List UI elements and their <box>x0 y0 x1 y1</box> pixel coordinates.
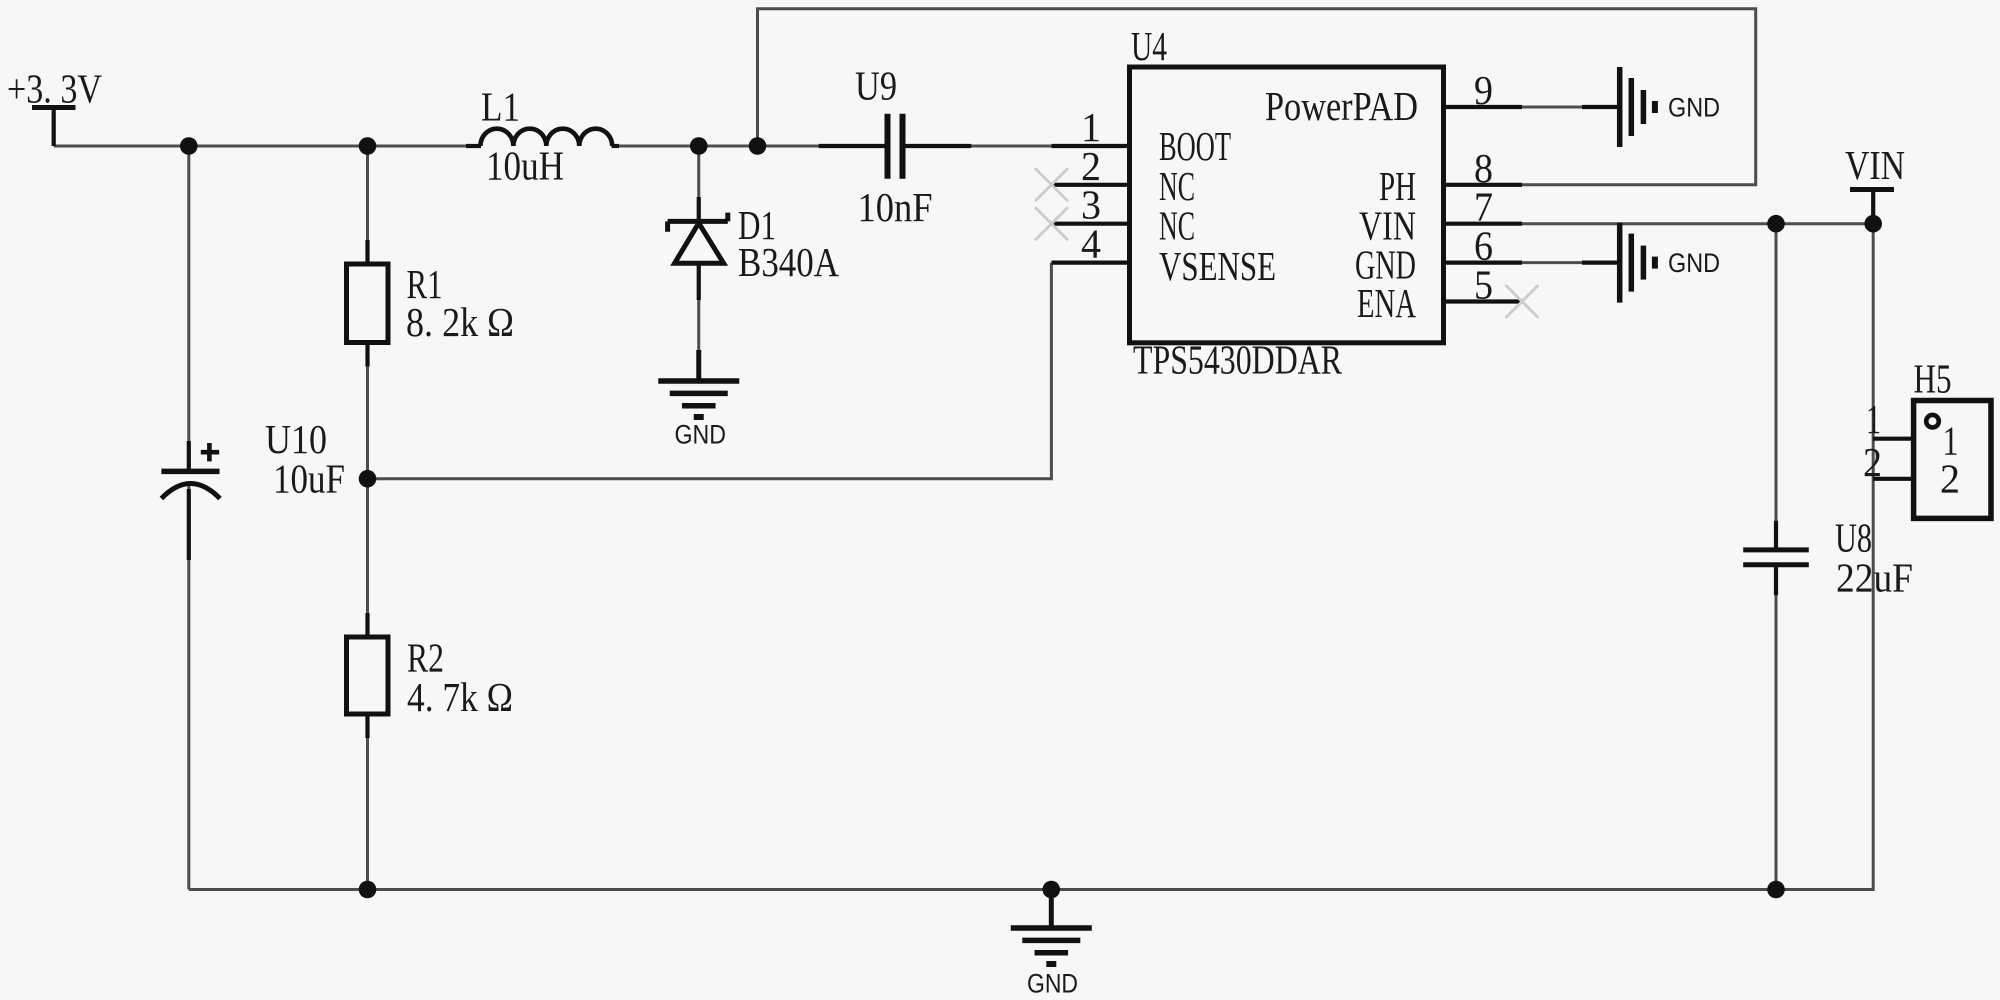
svg-text:VSENSE: VSENSE <box>1159 243 1276 289</box>
svg-text:2: 2 <box>1940 456 1960 502</box>
svg-text:2: 2 <box>1863 439 1882 485</box>
svg-text:+3. 3V: +3. 3V <box>7 66 102 112</box>
svg-text:4: 4 <box>1081 221 1101 267</box>
svg-text:ENA: ENA <box>1357 280 1416 326</box>
svg-text:VIN: VIN <box>1845 142 1905 188</box>
svg-text:4. 7k Ω: 4. 7k Ω <box>407 674 513 720</box>
svg-text:GND: GND <box>1027 969 1078 999</box>
svg-text:B340A: B340A <box>738 239 839 285</box>
svg-text:NC: NC <box>1159 203 1195 249</box>
svg-text:5: 5 <box>1474 262 1493 308</box>
svg-text:L1: L1 <box>481 84 520 130</box>
svg-text:U9: U9 <box>855 63 897 109</box>
svg-text:10nF: 10nF <box>858 184 933 230</box>
svg-text:U4: U4 <box>1131 23 1167 69</box>
svg-text:PowerPAD: PowerPAD <box>1265 83 1418 129</box>
svg-text:9: 9 <box>1474 67 1493 113</box>
svg-text:10uH: 10uH <box>486 143 564 189</box>
svg-text:GND: GND <box>1668 93 1720 123</box>
svg-text:GND: GND <box>675 420 727 450</box>
svg-text:GND: GND <box>1668 248 1720 278</box>
svg-text:1: 1 <box>1866 396 1881 442</box>
svg-text:8. 2k Ω: 8. 2k Ω <box>406 299 514 345</box>
svg-text:10uF: 10uF <box>273 456 345 502</box>
svg-text:H5: H5 <box>1914 356 1952 402</box>
svg-text:TPS5430DDAR: TPS5430DDAR <box>1133 337 1343 383</box>
svg-text:22uF: 22uF <box>1836 555 1913 601</box>
